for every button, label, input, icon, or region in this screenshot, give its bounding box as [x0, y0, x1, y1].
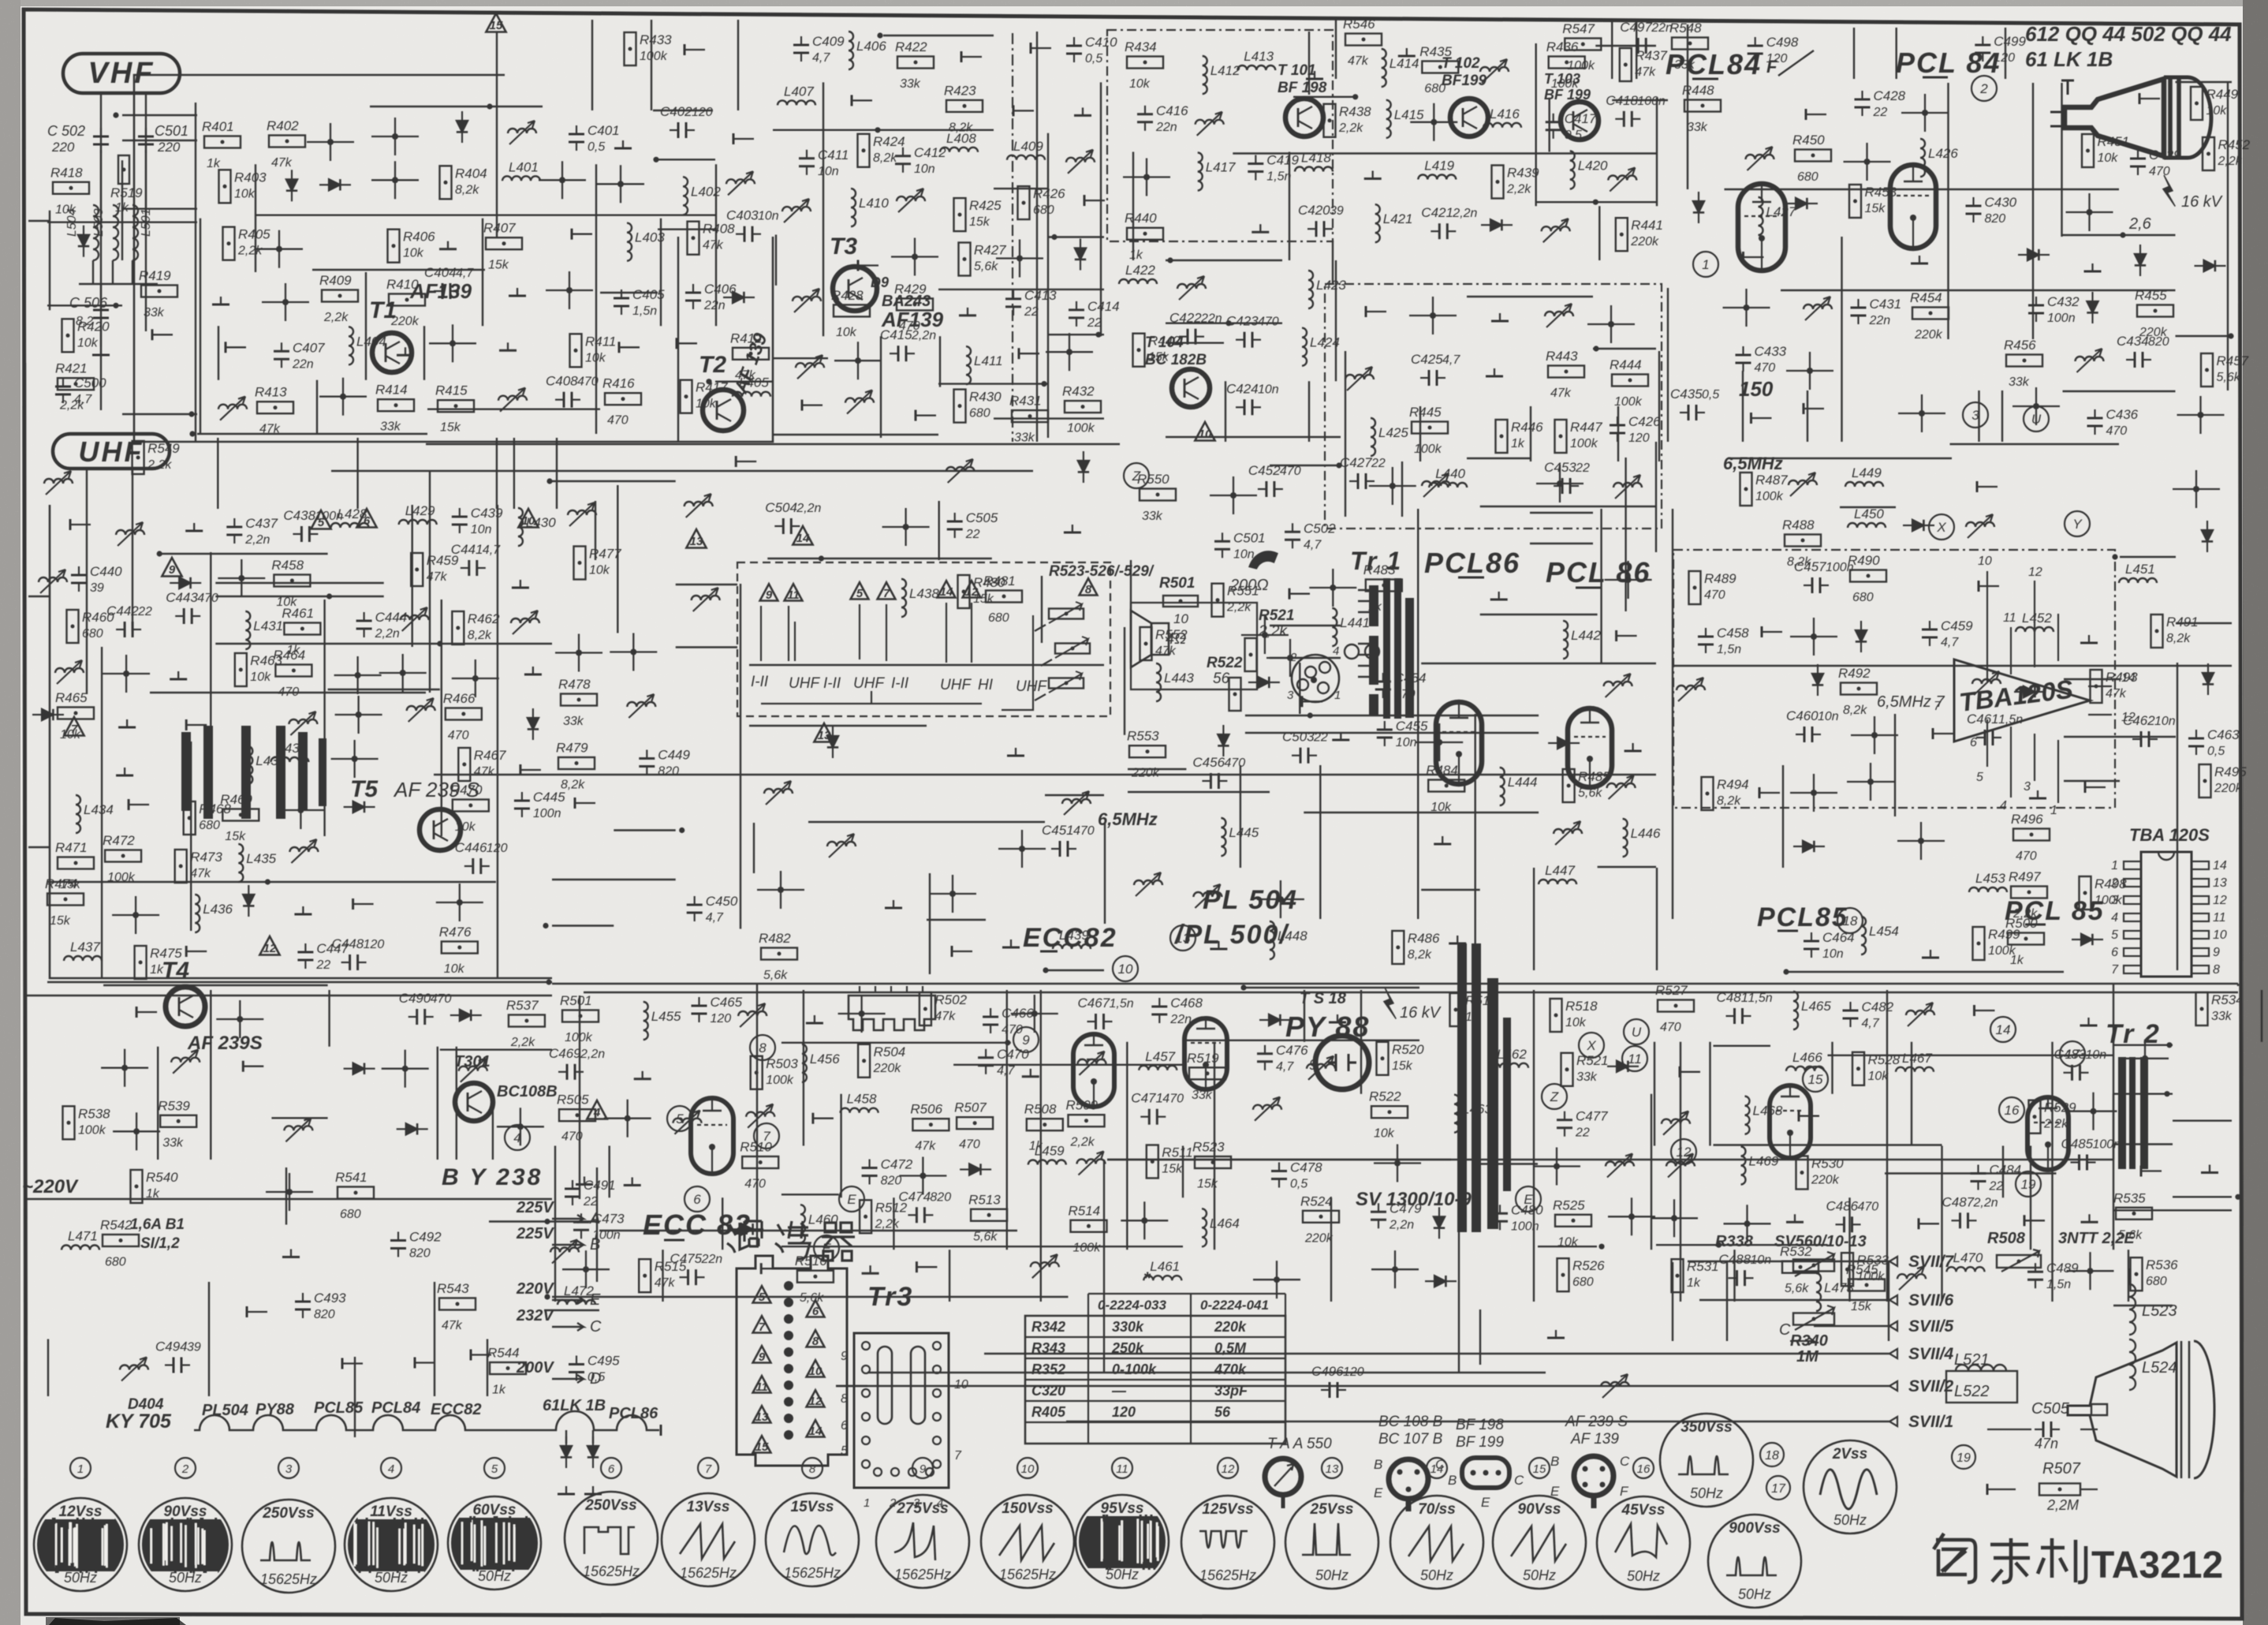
inductor L410 — [851, 189, 856, 226]
svg-text:C415: C415 — [880, 327, 912, 342]
dashed box tuner switch unit — [737, 562, 1110, 716]
svg-text:120: 120 — [711, 1012, 732, 1025]
svg-text:R407: R407 — [483, 221, 516, 236]
svg-text:470: 470 — [197, 592, 218, 605]
inductor L429 — [399, 520, 437, 525]
svg-text:R453: R453 — [1865, 185, 1897, 200]
svg-text:R418: R418 — [50, 165, 83, 180]
circled mark 8 — [750, 1035, 775, 1060]
wire — [1840, 506, 1896, 508]
svg-text:0-100k: 0-100k — [1112, 1362, 1157, 1377]
waveform oscillogram 17 (900Vss) — [1708, 1515, 1801, 1608]
svg-text:3: 3 — [285, 1462, 293, 1476]
svg-text:R491: R491 — [2166, 615, 2199, 629]
diode — [329, 179, 340, 190]
waveform number badge 10 — [1017, 1458, 1038, 1478]
resistor R498 — [2080, 876, 2091, 910]
resistor R456 — [2006, 355, 2042, 367]
capacitor C444 — [356, 620, 372, 622]
wire — [1479, 1309, 1481, 1365]
svg-text:L406: L406 — [856, 39, 886, 54]
waveform oscillogram 11 (95Vss) — [1076, 1495, 1169, 1588]
wire — [1242, 987, 1419, 988]
node junction — [355, 672, 361, 678]
capacitor C417 — [1546, 121, 1561, 123]
svg-text:T4: T4 — [162, 958, 189, 984]
svg-text:AF 139: AF 139 — [1570, 1431, 1619, 1448]
resistor R462 — [452, 611, 464, 644]
capacitor C457 — [1811, 577, 1814, 593]
trimmer — [289, 719, 317, 724]
node junction — [238, 575, 244, 581]
node junction — [1352, 94, 1358, 99]
svg-text:R457: R457 — [2217, 353, 2249, 368]
svg-text:UHF I-II: UHF I-II — [789, 675, 841, 692]
wire — [740, 584, 741, 929]
capacitor C437 — [226, 526, 242, 529]
svg-text:100k: 100k — [640, 50, 668, 63]
svg-text:R531: R531 — [1687, 1259, 1719, 1274]
svg-text:9: 9 — [759, 1350, 766, 1364]
node junction — [1043, 967, 1048, 973]
wire — [122, 208, 197, 210]
svg-text:R430: R430 — [969, 390, 1002, 405]
resistor R512 — [860, 1200, 871, 1233]
svg-text:10k: 10k — [455, 820, 476, 834]
svg-text:10n: 10n — [758, 210, 779, 223]
node junction — [546, 478, 552, 484]
wire — [1680, 1042, 1681, 1302]
svg-text:SVII/5: SVII/5 — [1908, 1317, 1954, 1335]
resistor R505 — [559, 1109, 595, 1121]
svg-text:10n: 10n — [1822, 947, 1844, 961]
svg-text:L412: L412 — [1210, 63, 1240, 78]
node junction — [286, 1189, 293, 1195]
svg-text:9: 9 — [766, 588, 773, 602]
svg-text:R447: R447 — [1570, 420, 1602, 435]
svg-text:15625Hz: 15625Hz — [999, 1567, 1056, 1582]
svg-text:TA3212: TA3212 — [2091, 1545, 2223, 1586]
svg-text:10: 10 — [1199, 428, 1212, 441]
capacitor C501 — [1214, 540, 1230, 543]
svg-text:PCL86: PCL86 — [609, 1405, 658, 1422]
svg-text:5,6k: 5,6k — [800, 1291, 824, 1305]
svg-text:45Vss: 45Vss — [1621, 1502, 1666, 1519]
tube PY88 V9 — [1315, 1036, 1369, 1089]
svg-text:R501: R501 — [1159, 575, 1195, 592]
svg-text:10k: 10k — [1565, 1016, 1587, 1029]
resistor R543 — [439, 1298, 476, 1310]
svg-text:R427: R427 — [974, 243, 1006, 258]
inductor L438 — [901, 579, 906, 617]
IC TBA120S triangle — [1954, 659, 2090, 742]
capacitor C454 — [1375, 681, 1391, 683]
svg-text:C453: C453 — [1544, 460, 1576, 475]
ground — [2088, 635, 2090, 643]
trimmer — [1062, 799, 1091, 804]
resistor R413 — [257, 402, 293, 413]
capacitor C434 — [2134, 352, 2136, 368]
resistor R494 — [1702, 777, 1714, 810]
svg-text:L455: L455 — [651, 1009, 681, 1024]
inductor L401 — [502, 176, 540, 181]
svg-text:100k: 100k — [1755, 490, 1784, 503]
antenna coupling C501 — [138, 136, 154, 138]
resistor R435 — [1422, 62, 1458, 73]
wire — [773, 129, 994, 131]
wire — [1593, 348, 1656, 349]
diode — [733, 292, 744, 303]
node junction — [1593, 200, 1598, 205]
node junction — [1431, 119, 1437, 125]
resistor R469 — [222, 809, 259, 821]
svg-text:R506: R506 — [910, 1102, 942, 1117]
svg-text:11: 11 — [2003, 611, 2016, 625]
resistor R431 — [1012, 410, 1048, 422]
svg-text:22: 22 — [1575, 1126, 1590, 1140]
svg-text:E: E — [1481, 1495, 1490, 1510]
resistor R419 — [141, 286, 177, 297]
svg-text:R483: R483 — [1363, 562, 1396, 577]
resistor R463 — [235, 653, 247, 686]
svg-text:13: 13 — [755, 1410, 769, 1424]
svg-text:L415: L415 — [1394, 107, 1424, 122]
ground — [1794, 1214, 1796, 1222]
wire — [47, 881, 496, 883]
svg-text:R469: R469 — [220, 792, 252, 807]
node junction — [1783, 969, 1789, 974]
svg-text:L420: L420 — [1578, 159, 1608, 174]
svg-text:C469: C469 — [549, 1046, 581, 1061]
wire — [1304, 990, 1305, 1042]
test point — [735, 456, 737, 467]
waveform oscillogram 5 (60Vss) — [448, 1496, 541, 1590]
transistor T2 AF139 — [703, 390, 744, 431]
inductor L405 — [733, 392, 770, 397]
svg-text:14: 14 — [1996, 1022, 2011, 1037]
wire — [1656, 868, 1658, 970]
waveform oscillogram 19 (2Vss) — [1804, 1440, 1897, 1533]
ground — [814, 1015, 815, 1023]
svg-text:8: 8 — [759, 1040, 767, 1055]
trimmer — [171, 1058, 200, 1063]
svg-text:70/ss: 70/ss — [1418, 1501, 1456, 1518]
wire — [2064, 780, 2120, 782]
svg-text:15k: 15k — [973, 592, 994, 606]
svg-text:6,5MHz: 6,5MHz — [1098, 809, 1158, 829]
wire — [2051, 1042, 2053, 1302]
svg-text:22: 22 — [965, 528, 980, 541]
node junction — [449, 340, 456, 346]
node junction — [356, 712, 362, 718]
svg-text:C419: C419 — [1266, 153, 1299, 168]
antenna wires — [100, 150, 102, 213]
wire — [2113, 1305, 2173, 1306]
svg-text:0,5: 0,5 — [1702, 388, 1719, 402]
wire — [1166, 323, 1282, 324]
svg-text:R467: R467 — [474, 748, 506, 763]
svg-text:5,6k: 5,6k — [973, 1230, 998, 1243]
capacitor C498 — [1748, 45, 1763, 47]
svg-text:C471: C471 — [1131, 1091, 1163, 1106]
resistor R412 — [733, 348, 769, 360]
wire — [2120, 556, 2176, 558]
inductor L457 — [1139, 1066, 1177, 1070]
svg-text:R511: R511 — [1162, 1145, 1192, 1160]
svg-text:R544: R544 — [487, 1346, 520, 1361]
wire — [271, 1117, 327, 1119]
resistor R546 — [1345, 34, 1382, 46]
svg-text:C402: C402 — [660, 104, 692, 119]
node junction — [859, 1010, 865, 1017]
ground — [1930, 950, 1931, 958]
test point — [1932, 728, 1934, 739]
inductor L451 — [2119, 578, 2157, 583]
svg-text:R405: R405 — [1031, 1404, 1066, 1420]
svg-text:3: 3 — [2024, 780, 2031, 794]
wire — [1636, 20, 1637, 79]
svg-text:47k: 47k — [1635, 65, 1656, 79]
wire — [1480, 614, 1598, 615]
wire — [676, 646, 737, 648]
wire — [591, 20, 593, 110]
capacitor C489 — [2027, 1271, 2043, 1273]
wire — [1047, 133, 1049, 438]
svg-text:C477: C477 — [1576, 1109, 1608, 1124]
svg-text:100k: 100k — [1567, 59, 1595, 73]
wire — [218, 326, 219, 379]
resistor R507 — [957, 1117, 993, 1129]
capacitor C415 — [897, 346, 900, 361]
circled mark U — [1624, 1019, 1649, 1044]
loudspeaker — [1151, 623, 1169, 655]
svg-text:L472: L472 — [564, 1283, 594, 1298]
ground — [1010, 940, 1012, 947]
wire — [1335, 260, 1337, 381]
svg-text:C499: C499 — [1994, 34, 2026, 49]
resistor R542 — [103, 1235, 139, 1246]
test point — [1750, 413, 1752, 424]
wire — [1714, 1045, 1771, 1047]
capacitor C490 — [416, 1009, 418, 1025]
wire — [775, 235, 777, 286]
wire — [208, 1282, 210, 1396]
svg-text:C448: C448 — [332, 936, 364, 951]
waveform oscillogram 13 (25Vss) — [1285, 1496, 1378, 1589]
svg-text:C461: C461 — [1967, 712, 1999, 727]
svg-text:R474: R474 — [45, 876, 77, 891]
svg-text:22: 22 — [583, 1195, 598, 1208]
svg-text:39: 39 — [1330, 204, 1344, 218]
trimmer — [726, 179, 755, 184]
svg-text:22n: 22n — [1869, 314, 1891, 327]
inductor L444 — [1500, 768, 1505, 805]
svg-text:L443: L443 — [1164, 671, 1194, 685]
diode — [1490, 219, 1501, 230]
test point — [1013, 105, 1015, 116]
node junction — [1671, 1215, 1677, 1221]
wire — [513, 438, 515, 509]
svg-text:L448: L448 — [1278, 928, 1307, 943]
wire — [1530, 512, 1593, 514]
resistor R477 — [574, 547, 586, 580]
wire — [1479, 1163, 1538, 1164]
svg-text:R432: R432 — [1062, 384, 1095, 399]
resistor R549 — [132, 441, 144, 474]
node junction — [297, 807, 304, 813]
svg-text:C401: C401 — [588, 123, 620, 138]
svg-text:6: 6 — [1970, 736, 1977, 749]
diode — [1803, 841, 1814, 852]
capacitor C405 — [614, 297, 629, 300]
svg-text:470: 470 — [1073, 824, 1095, 838]
svg-text:L450: L450 — [1854, 506, 1884, 521]
test point — [128, 799, 130, 810]
svg-text:R523: R523 — [1192, 1140, 1225, 1155]
ground — [517, 288, 518, 296]
wire — [2113, 1044, 2173, 1046]
svg-text:100k: 100k — [766, 1074, 794, 1087]
test point — [951, 946, 953, 957]
svg-text:10k: 10k — [1868, 1070, 1889, 1083]
wire — [1345, 351, 1346, 517]
svg-text:470: 470 — [1224, 756, 1245, 770]
wire — [552, 925, 614, 926]
svg-text:R509: R509 — [1066, 1098, 1099, 1113]
diode — [1434, 1276, 1445, 1287]
inductor L454 — [1861, 917, 1866, 954]
svg-text:L419: L419 — [1424, 159, 1454, 174]
svg-text:15625Hz: 15625Hz — [260, 1571, 317, 1587]
svg-text:50Hz: 50Hz — [1420, 1567, 1453, 1583]
capacitor C479 — [1371, 1211, 1386, 1213]
svg-text:680: 680 — [1033, 204, 1054, 217]
svg-text:6: 6 — [608, 1462, 615, 1476]
resistor R455 — [2137, 305, 2173, 317]
inductor L418 — [1295, 167, 1333, 172]
waveform number badge 1 — [70, 1458, 91, 1478]
wire — [1548, 98, 1550, 152]
svg-text:10: 10 — [809, 1365, 823, 1378]
wire — [215, 582, 383, 584]
svg-text:C441: C441 — [451, 542, 483, 557]
svg-text:10k: 10k — [1431, 801, 1452, 814]
inductor L460 — [800, 1205, 805, 1242]
ground — [193, 523, 195, 531]
svg-text:16 kV: 16 kV — [2181, 193, 2223, 211]
svg-text:15625Hz: 15625Hz — [1199, 1567, 1256, 1583]
svg-text:C489: C489 — [2046, 1261, 2079, 1276]
node junction — [1095, 332, 1101, 338]
svg-text:2,2k: 2,2k — [1226, 601, 1252, 615]
svg-text:R423: R423 — [944, 83, 976, 98]
svg-text:220k: 220k — [2214, 782, 2243, 795]
svg-text:1: 1 — [2111, 859, 2118, 872]
resistor R406 — [388, 230, 400, 263]
svg-text:R408: R408 — [703, 222, 735, 237]
svg-text:R446: R446 — [1511, 420, 1543, 435]
svg-text:L449: L449 — [1852, 465, 1882, 480]
diode — [1557, 738, 1569, 749]
capacitor C443 — [183, 608, 185, 624]
wire — [190, 742, 192, 931]
svg-text:5: 5 — [491, 1462, 498, 1476]
svg-text:10k: 10k — [403, 247, 424, 260]
inductor L452 — [2016, 627, 2054, 632]
svg-text:R489: R489 — [1704, 571, 1736, 586]
wire — [1293, 96, 1354, 98]
wire — [122, 114, 197, 116]
capacitor C408 — [563, 392, 565, 408]
svg-text:33k: 33k — [563, 715, 584, 728]
VHF tuner block border — [134, 75, 773, 442]
svg-text:C429: C429 — [2149, 148, 2181, 162]
wire — [47, 222, 197, 223]
wire — [994, 188, 1049, 189]
wire — [1240, 765, 1241, 868]
resistor R473 — [175, 850, 187, 883]
svg-text:1k: 1k — [150, 963, 164, 977]
inductor L416 — [1483, 123, 1521, 128]
inductor L422 — [1119, 279, 1157, 284]
svg-text:680: 680 — [969, 407, 990, 420]
svg-text:L403: L403 — [635, 230, 665, 245]
svg-text:L413: L413 — [1244, 49, 1274, 64]
svg-text:0-2224-033: 0-2224-033 — [1098, 1298, 1167, 1313]
capacitor C420 — [1315, 221, 1318, 237]
test point — [185, 946, 188, 957]
svg-text:9: 9 — [169, 563, 176, 577]
svg-text:R404: R404 — [455, 166, 487, 181]
svg-text:R507: R507 — [2042, 1460, 2081, 1477]
resistor R432 — [1065, 401, 1101, 413]
svg-text:C417: C417 — [1565, 111, 1597, 126]
test point — [1798, 1111, 1800, 1122]
wire — [1128, 768, 1186, 770]
trimmer — [401, 615, 429, 620]
wire — [609, 1146, 610, 1198]
inductor L434 — [76, 795, 80, 833]
diode — [1693, 201, 1704, 212]
svg-text:C505: C505 — [966, 510, 998, 525]
capacitor C495 — [569, 1363, 584, 1365]
waveform oscillogram 4 (11Vss) — [345, 1498, 438, 1591]
node junction — [1307, 712, 1313, 718]
svg-text:R439: R439 — [1507, 166, 1539, 181]
diode — [827, 736, 838, 747]
test point — [352, 898, 354, 910]
diode — [406, 1123, 417, 1134]
node junction — [1278, 896, 1284, 902]
wire — [1828, 1055, 2114, 1056]
svg-text:6: 6 — [841, 1419, 848, 1433]
test point — [961, 51, 963, 62]
circled mark E — [839, 1186, 864, 1212]
svg-text:R546: R546 — [1343, 17, 1375, 32]
waveform number badge 18 — [1760, 1443, 1784, 1466]
svg-text:250Vss: 250Vss — [584, 1497, 637, 1514]
svg-text:900Vss: 900Vss — [1729, 1520, 1781, 1537]
svg-text:R526: R526 — [1572, 1258, 1605, 1273]
svg-text:2: 2 — [889, 1496, 897, 1510]
wire — [2261, 990, 2262, 1042]
inductor L430 — [518, 508, 523, 546]
inductor L428 — [331, 523, 369, 528]
svg-text:C463: C463 — [2207, 727, 2240, 742]
svg-text:15625Hz: 15625Hz — [583, 1563, 640, 1579]
resistor R461 — [284, 623, 320, 635]
wire — [1654, 1042, 1655, 1146]
